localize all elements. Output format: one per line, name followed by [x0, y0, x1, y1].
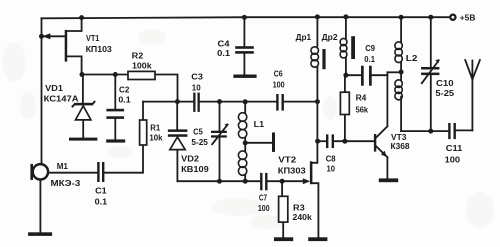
- svg-text:0.1: 0.1: [364, 54, 375, 64]
- svg-text:L2: L2: [406, 53, 418, 63]
- svg-text:C4: C4: [218, 38, 230, 48]
- svg-text:100k: 100k: [132, 61, 152, 71]
- svg-text:R4: R4: [356, 93, 367, 103]
- svg-text:240k: 240k: [293, 212, 312, 222]
- svg-text:C6: C6: [274, 68, 283, 78]
- svg-text:C7: C7: [259, 193, 267, 203]
- svg-text:C2: C2: [119, 84, 130, 94]
- svg-text:+5В: +5В: [460, 13, 476, 23]
- svg-text:0.1: 0.1: [217, 48, 230, 58]
- svg-text:R2: R2: [132, 51, 144, 61]
- svg-text:0.1: 0.1: [118, 95, 130, 105]
- svg-text:M1: M1: [57, 161, 68, 171]
- svg-text:МКЭ-3: МКЭ-3: [51, 178, 81, 188]
- svg-text:0.1: 0.1: [95, 197, 108, 207]
- svg-text:L1: L1: [254, 119, 265, 129]
- svg-text:C5: C5: [193, 127, 203, 137]
- svg-text:C9: C9: [365, 43, 375, 53]
- svg-text:100: 100: [445, 155, 461, 165]
- svg-text:10: 10: [192, 83, 201, 93]
- svg-text:Др1: Др1: [296, 32, 312, 42]
- svg-text:VT2: VT2: [278, 154, 296, 164]
- svg-text:К368: К368: [391, 141, 410, 151]
- svg-text:5-25: 5-25: [191, 137, 208, 147]
- svg-text:C1: C1: [95, 185, 107, 195]
- svg-text:C11: C11: [446, 143, 463, 153]
- svg-text:R3: R3: [293, 203, 305, 213]
- svg-text:C8: C8: [326, 153, 336, 163]
- svg-text:C3: C3: [191, 72, 203, 82]
- svg-text:10k: 10k: [149, 133, 162, 143]
- svg-text:100: 100: [258, 203, 270, 213]
- svg-text:5-25: 5-25: [435, 88, 454, 98]
- svg-text:КВ109: КВ109: [181, 164, 209, 174]
- svg-text:VD1: VD1: [45, 83, 63, 93]
- svg-text:КС147А: КС147А: [44, 94, 80, 104]
- svg-text:R1: R1: [150, 122, 160, 132]
- svg-text:100: 100: [273, 80, 285, 90]
- svg-text:КП103: КП103: [86, 44, 112, 54]
- svg-text:Др2: Др2: [322, 32, 338, 42]
- svg-text:56k: 56k: [356, 105, 369, 115]
- svg-text:VD2: VD2: [181, 154, 199, 164]
- svg-text:10: 10: [327, 164, 336, 174]
- svg-text:КП303: КП303: [278, 165, 306, 175]
- svg-text:VT1: VT1: [86, 33, 99, 43]
- svg-text:C10: C10: [436, 78, 454, 88]
